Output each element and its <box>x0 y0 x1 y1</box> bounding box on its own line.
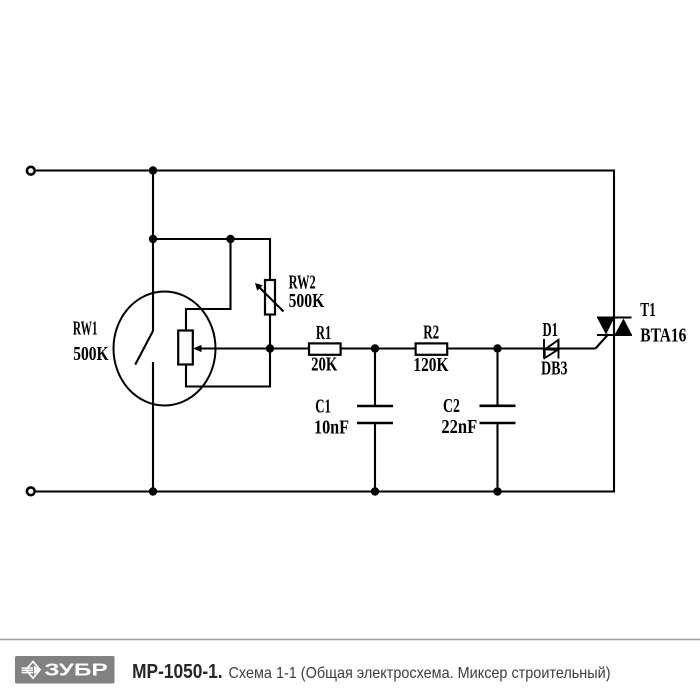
svg-text:20K: 20K <box>311 353 338 375</box>
svg-text:R2: R2 <box>423 321 439 343</box>
svg-text:C2: C2 <box>443 395 460 417</box>
svg-text:T1: T1 <box>640 299 656 321</box>
svg-text:BTA16: BTA16 <box>640 325 686 347</box>
svg-text:D1: D1 <box>543 319 559 341</box>
svg-text:22nF: 22nF <box>441 416 477 438</box>
svg-text:МР-1050-1.: МР-1050-1. <box>132 661 223 683</box>
svg-text:ЗУБР: ЗУБР <box>44 660 108 680</box>
svg-text:120K: 120K <box>413 354 448 376</box>
svg-text:R1: R1 <box>316 322 331 344</box>
svg-text:C1: C1 <box>315 395 331 417</box>
svg-text:Схема 1-1 (Общая электросхема.: Схема 1-1 (Общая электросхема. Миксер ст… <box>229 665 611 682</box>
svg-text:500K: 500K <box>73 343 109 365</box>
svg-text:500K: 500K <box>289 290 325 312</box>
svg-text:RW1: RW1 <box>73 317 98 339</box>
svg-text:DB3: DB3 <box>541 358 568 380</box>
svg-text:10nF: 10nF <box>314 417 349 439</box>
